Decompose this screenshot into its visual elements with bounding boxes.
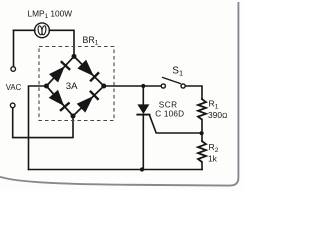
switch S1	[161, 77, 185, 88]
wire switch to right corner down to R1	[185, 86, 202, 99]
svg-text:390Ω: 390Ω	[208, 110, 228, 120]
node bridge bottom	[71, 114, 76, 119]
svg-text:1k: 1k	[208, 154, 218, 164]
lamp LMP1	[35, 23, 50, 38]
wire R2 bottom to rail corner	[201, 162, 203, 170]
SCR C106D	[136, 104, 150, 114]
diode bridge top-left	[46, 56, 74, 86]
svg-text:SCR: SCR	[159, 100, 178, 109]
diode bridge bottom-left	[46, 86, 73, 116]
wire top rail: lamp to bridge top	[14, 29, 35, 31]
wire R1 bottom to junction to R2 top	[201, 120, 203, 142]
terminal VAC top	[11, 67, 16, 72]
wire bridge right node to switch	[104, 85, 161, 87]
terminal VAC bottom	[10, 103, 15, 108]
resistor R2	[198, 140, 206, 162]
svg-text:C 106D: C 106D	[155, 109, 184, 118]
node switch-SCR junction	[141, 84, 145, 88]
border shadow (scan edge)	[0, 2, 238, 186]
svg-text:LMP1 100W: LMP1 100W	[28, 8, 73, 20]
bridge BR1 dashed outline	[39, 47, 114, 121]
wire left drop to VAC top terminal	[13, 30, 15, 66]
wire bottom rail	[29, 169, 203, 171]
wire bridge left node to bottom rail	[29, 86, 47, 170]
node bridge top	[72, 54, 77, 59]
resistor R1	[198, 98, 206, 119]
diode bridge bottom-right	[73, 86, 104, 116]
wire SCR anode drop	[142, 86, 144, 104]
node gate junction R1-R2	[200, 131, 204, 135]
svg-text:VAC: VAC	[6, 83, 22, 92]
wire SCR gate to R1-R2 junction	[150, 115, 202, 133]
svg-text:3A: 3A	[66, 81, 78, 92]
wire VAC bottom terminal down and right to bridge bottom	[13, 108, 73, 138]
node SCR cathode on bottom rail	[140, 167, 144, 171]
node bridge right	[101, 84, 106, 89]
diode bridge top-right	[74, 56, 104, 86]
node bridge left	[44, 84, 49, 89]
wire SCR cathode to bottom rail	[142, 115, 144, 170]
